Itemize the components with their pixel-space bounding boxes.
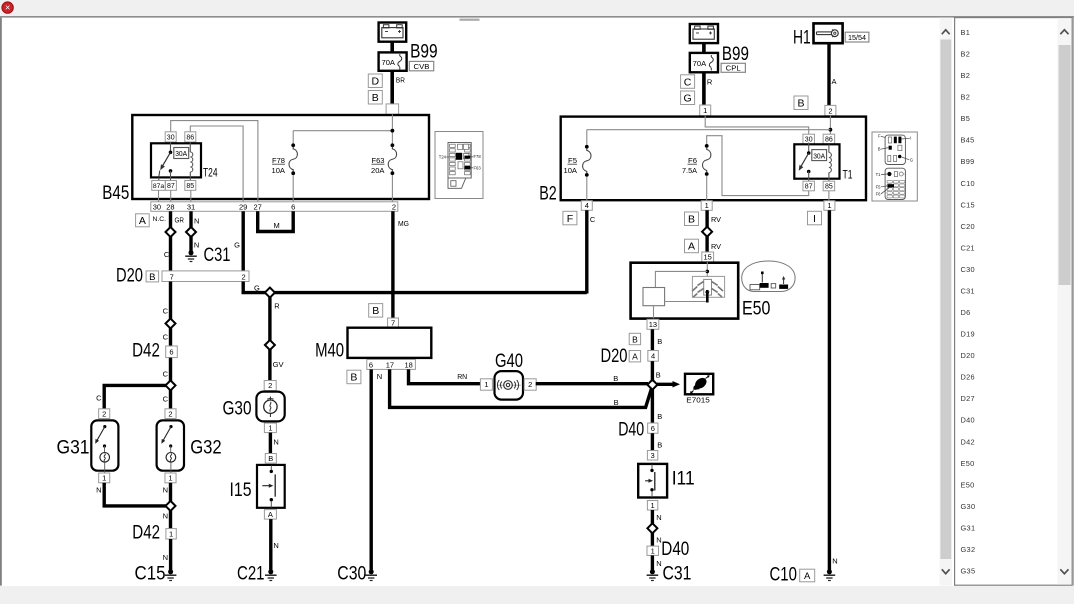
svg-text:F63: F63 [372, 156, 385, 165]
pin box into B45 [386, 104, 399, 115]
wire C [169, 328, 172, 346]
pin 1 G40 [480, 379, 492, 390]
svg-text:C: C [163, 307, 169, 316]
wire RV to E50 [705, 236, 708, 252]
pin 2 G32 [165, 409, 176, 419]
svg-text:B99: B99 [722, 44, 749, 65]
B45 relay routing lines [171, 121, 258, 202]
connector D40 pin1 [647, 546, 659, 555]
junction splice [265, 340, 275, 350]
ground C21 [268, 569, 273, 574]
svg-text:G40: G40 [495, 351, 523, 372]
svg-text:CVB: CVB [414, 62, 430, 71]
svg-text:G30: G30 [223, 399, 252, 420]
svg-text:28: 28 [166, 202, 174, 211]
svg-text:F63: F63 [474, 165, 482, 170]
lamp-switch G31 [91, 420, 118, 470]
pin 1 I11 [647, 501, 657, 511]
svg-text:70A: 70A [382, 58, 396, 67]
svg-text:N: N [194, 241, 199, 250]
svg-text:3: 3 [651, 451, 655, 460]
svg-text:6: 6 [651, 424, 655, 433]
svg-text:D19: D19 [961, 330, 975, 339]
junction splice [166, 319, 176, 329]
svg-text:CPL: CPL [726, 64, 741, 73]
svg-text:B: B [657, 337, 662, 346]
wire C branch to G31 [104, 385, 166, 408]
wire N I11 down [651, 510, 654, 524]
svg-text:I15: I15 [230, 480, 252, 501]
svg-text:BR: BR [396, 76, 406, 85]
svg-text:B: B [632, 334, 638, 344]
horn G40 [495, 371, 524, 400]
battery B99 (left) [379, 23, 407, 42]
pin 1 into B2 [700, 105, 711, 116]
component list panel [955, 18, 1073, 586]
wire C to D20 pin7 [169, 237, 172, 272]
svg-text:D40: D40 [961, 416, 975, 425]
pin 2 into B2 [825, 105, 836, 115]
svg-text:C21: C21 [237, 563, 265, 584]
pin 1 G30 [264, 423, 276, 433]
main scrollbar [940, 18, 952, 586]
svg-text:MG: MG [398, 219, 409, 228]
svg-text:B1: B1 [961, 28, 971, 37]
switch I11 [638, 464, 667, 498]
connector letter box B [368, 91, 382, 105]
svg-text:N: N [194, 217, 199, 226]
connector letter box D [368, 74, 382, 88]
svg-text:RN: RN [457, 372, 467, 381]
svg-text:C31: C31 [663, 564, 692, 585]
svg-text:B45: B45 [102, 183, 129, 204]
svg-text:B: B [350, 372, 357, 384]
wire N to D42-1 [169, 510, 172, 528]
fuse-relay box B45 [132, 115, 429, 199]
svg-text:G31: G31 [57, 437, 90, 458]
svg-text:C: C [590, 215, 596, 224]
wire B junction down [651, 389, 654, 423]
svg-text:86: 86 [825, 137, 833, 144]
connector letter box A (B45) [136, 214, 150, 227]
svg-text:E50: E50 [742, 299, 770, 320]
svg-text:B2: B2 [961, 71, 971, 80]
svg-text:D20: D20 [601, 346, 628, 367]
wire MG pin2 to M40 [391, 211, 394, 318]
junction splice [166, 227, 176, 237]
svg-text:RV: RV [711, 242, 721, 251]
wire N pin31 [189, 211, 192, 227]
connector letter box B (RV) [685, 212, 699, 226]
svg-text:D6: D6 [961, 308, 971, 317]
svg-text:2: 2 [242, 272, 246, 281]
svg-text:1: 1 [703, 106, 707, 115]
svg-text:C30: C30 [961, 265, 975, 274]
wire C D20-7 down [169, 282, 172, 320]
lamp G30 [256, 392, 284, 422]
svg-text:C: C [96, 394, 102, 403]
svg-text:G: G [684, 93, 692, 105]
svg-text:E7015: E7015 [686, 395, 710, 404]
svg-text:N: N [377, 372, 382, 381]
svg-text:G: G [254, 283, 260, 292]
svg-text:G: G [910, 157, 913, 162]
svg-text:N: N [163, 486, 168, 495]
wire GR pin28 [169, 211, 172, 227]
wire N M40-6 to C30 [370, 369, 373, 570]
svg-text:10A: 10A [272, 166, 286, 175]
wire GV [268, 350, 271, 381]
inset fusebox view (B45) [435, 132, 483, 199]
wire battery to fuse [390, 42, 394, 53]
pin A I15 [264, 510, 276, 519]
wire M40-17 [390, 369, 652, 407]
pin 2 G30 [264, 381, 276, 391]
svg-text:29: 29 [239, 202, 247, 211]
junction splice on feed [265, 288, 275, 298]
svg-text:1: 1 [651, 501, 655, 510]
svg-text:7: 7 [170, 272, 174, 281]
wire G main horizontal [243, 282, 587, 293]
svg-text:N: N [96, 486, 101, 495]
svg-text:1: 1 [102, 474, 106, 483]
svg-text:A: A [688, 241, 695, 253]
svg-text:C31: C31 [961, 286, 975, 295]
window bottom bar [0, 586, 1074, 604]
svg-text:N: N [273, 541, 278, 550]
svg-text:N: N [656, 559, 661, 568]
svg-text:B5: B5 [961, 114, 971, 123]
wire N to C15 [169, 539, 172, 571]
svg-text:2: 2 [168, 409, 172, 418]
svg-text:87: 87 [167, 183, 175, 190]
window top bar [0, 0, 1074, 16]
wire M40-18 to G40 [409, 369, 482, 383]
connector letter box A (C10) [800, 569, 815, 582]
connector letter box B (M40 bottom) [347, 370, 361, 384]
svg-text:B: B [372, 92, 379, 104]
ground C30 [369, 569, 374, 574]
M40 bottom strip pins 6 17 18 [367, 360, 416, 370]
fuse-relay box B2 [561, 117, 866, 201]
list scrollbar [1058, 18, 1072, 584]
wire B to junction [651, 361, 654, 380]
svg-text:6: 6 [369, 361, 373, 370]
svg-text:D20: D20 [116, 266, 143, 287]
wire N B2 to C10 [828, 210, 831, 570]
svg-text:F78: F78 [474, 154, 482, 159]
fuse F6 [707, 136, 809, 196]
svg-text:N.C.: N.C. [153, 216, 167, 223]
wire G pin29 to D20 [241, 211, 244, 271]
svg-text:86: 86 [186, 134, 194, 141]
ignition switch H1 [814, 23, 843, 43]
fuse F78 [291, 143, 295, 147]
switch I15 [257, 465, 285, 508]
svg-text:B: B [268, 454, 273, 463]
svg-text:C: C [684, 76, 692, 88]
svg-text:D26: D26 [961, 373, 975, 382]
B2 bottom pin 1 (85) [824, 201, 835, 211]
svg-text:M: M [274, 221, 280, 230]
svg-text:31: 31 [187, 202, 195, 211]
wire N [651, 533, 654, 546]
fuse F63 [391, 133, 393, 146]
E50 connector balloon [742, 261, 795, 292]
pin 2 G31 [99, 409, 110, 419]
svg-text:2: 2 [392, 202, 396, 211]
svg-text:T1: T1 [876, 172, 882, 177]
junction splice [702, 227, 712, 237]
svg-text:N: N [273, 438, 278, 447]
svg-text:T24: T24 [439, 155, 447, 160]
wire A from H1 [827, 43, 830, 106]
svg-text:B: B [657, 441, 662, 450]
svg-text:10A: 10A [564, 166, 578, 175]
connector letter box B (M40 top) [369, 304, 383, 318]
svg-text:A: A [832, 77, 837, 86]
junction splice [186, 227, 196, 237]
svg-text:H1: H1 [793, 27, 811, 48]
svg-text:F6: F6 [876, 191, 882, 196]
svg-text:6: 6 [291, 202, 295, 211]
pin B I15 [265, 454, 276, 464]
svg-text:E50: E50 [961, 459, 975, 468]
connector letter box B (H1) [794, 96, 808, 110]
wire battery to fuse (right) [702, 43, 706, 53]
svg-text:R: R [707, 77, 713, 86]
svg-text:1: 1 [268, 424, 272, 433]
svg-text:C: C [163, 333, 169, 342]
svg-text:M40: M40 [315, 341, 344, 362]
connector letter box B (D20 right) [629, 333, 640, 344]
svg-text:C20: C20 [961, 222, 975, 231]
svg-text:C10: C10 [770, 565, 797, 586]
svg-text:13: 13 [649, 320, 657, 329]
pin 2 G40 [524, 379, 536, 390]
svg-text:A: A [268, 510, 273, 519]
close button [2, 2, 13, 13]
wire R [702, 72, 706, 105]
svg-text:GV: GV [273, 360, 284, 369]
B2 internal feed line pin1 to relay 30 [705, 116, 809, 134]
svg-text:D40: D40 [618, 420, 644, 441]
canvas left border [0, 18, 2, 586]
svg-text:N: N [656, 513, 661, 522]
svg-text:F5: F5 [876, 184, 882, 189]
svg-text:C30: C30 [337, 563, 366, 584]
svg-text:F: F [567, 213, 573, 225]
window right border [1073, 18, 1074, 586]
B45 connector strip [151, 202, 398, 212]
wire C to G32 [169, 390, 172, 409]
svg-text:4: 4 [651, 352, 655, 361]
svg-text:C: C [163, 370, 169, 379]
svg-text:7.5A: 7.5A [682, 166, 697, 175]
svg-text:1: 1 [484, 380, 488, 389]
svg-text:RV: RV [711, 215, 721, 224]
junction splice [166, 501, 176, 511]
svg-text:N: N [163, 553, 168, 562]
relay T1 [803, 134, 815, 144]
svg-text:G35: G35 [961, 567, 976, 576]
pin 1 G31 [99, 473, 110, 483]
wire R [268, 297, 271, 341]
svg-text:T1: T1 [843, 168, 853, 182]
svg-text:B: B [878, 147, 881, 152]
svg-text:G: G [234, 240, 240, 249]
wire C [169, 358, 172, 381]
B2 bottom pin 4 [581, 201, 592, 211]
connector letter box A (RV) [685, 239, 699, 253]
svg-text:A: A [139, 215, 146, 227]
svg-text:30: 30 [167, 134, 175, 141]
inset fusebox view (B2) [872, 132, 917, 201]
module M40 [348, 328, 432, 358]
svg-text:A: A [804, 571, 811, 582]
svg-text:15: 15 [704, 253, 712, 262]
wire N G31 join [104, 483, 166, 506]
svg-text:30: 30 [153, 202, 161, 211]
fuse F5 [585, 145, 589, 149]
svg-text:4: 4 [585, 201, 589, 210]
ground C10 [827, 569, 832, 574]
svg-text:85: 85 [825, 184, 833, 191]
battery B99 (right) [690, 24, 718, 43]
svg-text:18: 18 [405, 361, 413, 370]
svg-text:30A: 30A [175, 151, 187, 158]
svg-text:F6: F6 [688, 156, 697, 165]
ground C31 (lower) [650, 569, 655, 574]
fuse 70A (B99 left) [379, 52, 407, 70]
reference E7015 [685, 374, 713, 395]
connector letter box G [681, 91, 695, 105]
svg-text:1: 1 [168, 474, 172, 483]
svg-text:B99: B99 [410, 42, 438, 63]
svg-text:30A: 30A [813, 153, 825, 160]
ground C31 (upper) [189, 250, 194, 255]
wire BR [390, 71, 394, 104]
svg-text:I11: I11 [672, 469, 695, 490]
svg-text:C21: C21 [961, 243, 975, 252]
svg-text:D42: D42 [132, 340, 160, 361]
svg-text:87: 87 [805, 184, 813, 191]
svg-text:B: B [656, 371, 661, 380]
svg-text:E50: E50 [961, 480, 975, 489]
svg-text:G32: G32 [961, 545, 976, 554]
svg-text:C: C [164, 250, 170, 259]
svg-text:B: B [613, 374, 618, 383]
code box CPL [721, 63, 745, 72]
svg-text:B: B [688, 214, 695, 226]
svg-text:6: 6 [169, 348, 173, 357]
junction splice (B) [647, 380, 657, 390]
code box 15/54 [845, 32, 869, 42]
connector letter box F (B2) [563, 211, 577, 225]
B2 internal line pin2/F5 [829, 116, 831, 134]
svg-text:17: 17 [386, 361, 394, 370]
svg-text:2: 2 [828, 106, 832, 115]
svg-text:1: 1 [827, 201, 831, 210]
ground C15 [168, 569, 173, 574]
pin 7 M40 [388, 318, 399, 328]
svg-text:GR: GR [175, 216, 185, 225]
svg-text:N: N [832, 557, 837, 566]
svg-text:70A: 70A [693, 59, 707, 68]
svg-text:85: 85 [186, 183, 194, 190]
svg-text:2: 2 [268, 381, 272, 390]
svg-text:B2: B2 [539, 184, 557, 205]
svg-text:D20: D20 [961, 351, 975, 360]
svg-text:B: B [614, 398, 619, 407]
wire N G32 down [169, 483, 172, 502]
svg-text:F78: F78 [272, 156, 285, 165]
connector letter box I (B2) [808, 211, 822, 225]
wire N G30-I15 [269, 433, 272, 454]
svg-text:B: B [149, 272, 155, 283]
svg-text:B: B [797, 98, 804, 110]
pin 15 E50 [702, 252, 714, 262]
B45 internal feed lines [391, 114, 393, 130]
wire N to ground [189, 237, 192, 252]
svg-text:C15: C15 [135, 563, 166, 584]
svg-text:N: N [163, 512, 168, 521]
svg-text:A: A [632, 352, 638, 362]
svg-text:B: B [372, 305, 379, 317]
svg-text:T24: T24 [203, 166, 218, 180]
wire B to I11 [651, 433, 654, 450]
connector letter box C [681, 75, 695, 89]
svg-text:C10: C10 [961, 179, 975, 188]
pin 1 G32 [165, 473, 176, 483]
svg-text:D42: D42 [961, 437, 975, 446]
svg-text:C31: C31 [204, 245, 231, 266]
svg-text:1: 1 [651, 546, 655, 555]
svg-text:D42: D42 [132, 523, 160, 544]
svg-text:D: D [372, 76, 380, 88]
svg-text:C: C [163, 395, 169, 404]
tiny title text [460, 19, 480, 21]
svg-text:G30: G30 [961, 502, 976, 511]
wire N to C31 [651, 555, 654, 570]
svg-text:G31: G31 [961, 523, 976, 532]
svg-text:1: 1 [169, 530, 173, 539]
svg-text:7: 7 [391, 318, 395, 327]
svg-text:B2: B2 [961, 93, 971, 102]
wire N to C21 [269, 519, 272, 570]
lamp-switch G32 [157, 420, 184, 470]
svg-text:B99: B99 [961, 157, 975, 166]
wire RV [705, 210, 708, 227]
relay T24 [165, 132, 176, 142]
jumper M pins 27-6 [258, 211, 294, 231]
wire B E50 down [651, 329, 654, 350]
pin 13 E50 [647, 319, 659, 329]
fuse 70A (B99 right) [690, 53, 718, 72]
junction splice [166, 380, 176, 390]
svg-text:20A: 20A [371, 166, 385, 175]
arrow to E7015 [657, 383, 673, 386]
svg-text:F5: F5 [568, 156, 577, 165]
svg-text:2: 2 [528, 380, 532, 389]
svg-text:×: × [5, 3, 10, 13]
svg-text:I: I [910, 136, 911, 141]
pin 3 I11 [647, 451, 657, 461]
svg-text:I: I [813, 213, 816, 225]
svg-text:2: 2 [102, 409, 106, 418]
junction splice [647, 523, 657, 533]
svg-text:G32: G32 [190, 437, 222, 458]
